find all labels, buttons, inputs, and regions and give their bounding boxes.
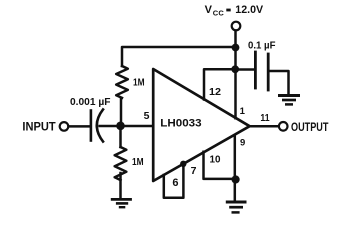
wire input node down to R2 bbox=[119, 126, 122, 147]
pin 5 label bbox=[144, 110, 150, 122]
label INPUT bbox=[22, 122, 55, 134]
pin 12 label bbox=[209, 86, 221, 98]
pin 1 label bbox=[240, 106, 246, 117]
pin 10 label bbox=[210, 153, 221, 165]
op-amp U1 LH0033 triangle bbox=[153, 69, 249, 181]
svg-text:V: V bbox=[205, 4, 213, 16]
INPUT terminal circle bbox=[60, 122, 69, 131]
svg-text:1: 1 bbox=[240, 106, 246, 117]
svg-text:11: 11 bbox=[260, 113, 270, 124]
svg-text:5: 5 bbox=[144, 110, 150, 122]
capacitor C1 value 0.001uF bbox=[70, 97, 111, 108]
wire Vcc terminal down through rail to pin 1 bbox=[234, 31, 237, 119]
pin 6 label bbox=[172, 177, 178, 189]
wire input terminal to C1 bbox=[69, 125, 90, 128]
ground (below R2) bbox=[111, 199, 132, 207]
svg-text:7: 7 bbox=[191, 165, 197, 177]
svg-text:12: 12 bbox=[209, 86, 221, 98]
svg-text:LH0033: LH0033 bbox=[160, 118, 201, 130]
svg-text:CC: CC bbox=[213, 9, 225, 18]
pin 9 label bbox=[240, 137, 245, 148]
capacitor C2 0.1uF left plate bbox=[254, 52, 257, 88]
capacitor C2 right plate bbox=[267, 54, 270, 90]
svg-text:1M: 1M bbox=[132, 156, 144, 168]
wire input node to pin 5 bbox=[121, 125, 153, 128]
wire bypass node to C2 bbox=[236, 68, 255, 71]
wire R2 bottom to ground bbox=[119, 173, 122, 198]
svg-text:1M: 1M bbox=[133, 77, 145, 89]
wire C1 to input node bbox=[100, 125, 118, 128]
label OUTPUT bbox=[291, 122, 328, 134]
wire pin 12 branch to Vcc line bbox=[204, 69, 232, 99]
svg-text:0.001 µF: 0.001 µF bbox=[70, 97, 111, 108]
OUTPUT terminal circle bbox=[279, 122, 288, 131]
wire pins 6-7 short bbox=[164, 164, 184, 198]
svg-text:INPUT: INPUT bbox=[22, 122, 55, 134]
wire pin 9 down to output ground node bbox=[234, 136, 237, 201]
resistor R2 value 1M bbox=[132, 156, 144, 168]
resistor R2 1M (lower) bbox=[115, 147, 127, 180]
svg-text:10: 10 bbox=[210, 153, 221, 165]
node bypass line junction dot bbox=[231, 65, 239, 73]
wire C2 to ground corner bbox=[270, 71, 289, 94]
pin 7 label bbox=[191, 165, 197, 177]
Vcc terminal circle bbox=[232, 22, 241, 31]
capacitor C1 curved plate bbox=[97, 110, 103, 142]
wire R1 bottom to input node bbox=[120, 98, 123, 126]
svg-text:OUTPUT: OUTPUT bbox=[291, 122, 328, 134]
svg-text:0.1 µF: 0.1 µF bbox=[248, 41, 276, 52]
wire op-amp tip to output terminal bbox=[249, 125, 279, 128]
label 0.1 uF bbox=[248, 41, 276, 52]
node pin 7 junction dot bbox=[180, 161, 186, 167]
node Vcc rail junction dot bbox=[232, 44, 240, 52]
svg-text:9: 9 bbox=[240, 137, 245, 148]
label Vcc = 12.0V bbox=[205, 4, 264, 17]
ground (bypass C2) bbox=[278, 96, 300, 105]
pin 11 label bbox=[260, 113, 270, 124]
wire top rail from R1 to Vcc node bbox=[122, 47, 236, 66]
capacitor C1 0.001uF left plate bbox=[90, 111, 93, 141]
svg-text:12.0V: 12.0V bbox=[235, 4, 263, 16]
ground (main, below op-amp) bbox=[226, 202, 247, 212]
resistor R1 value 1M bbox=[133, 77, 145, 89]
node output ground junction dot bbox=[232, 175, 240, 183]
resistor R1 1M (upper) bbox=[116, 66, 128, 98]
wire pin 10 branch bbox=[204, 152, 233, 179]
node A input node junction dot bbox=[116, 122, 125, 131]
label LH0033 bbox=[160, 118, 201, 130]
svg-text:6: 6 bbox=[172, 177, 178, 189]
